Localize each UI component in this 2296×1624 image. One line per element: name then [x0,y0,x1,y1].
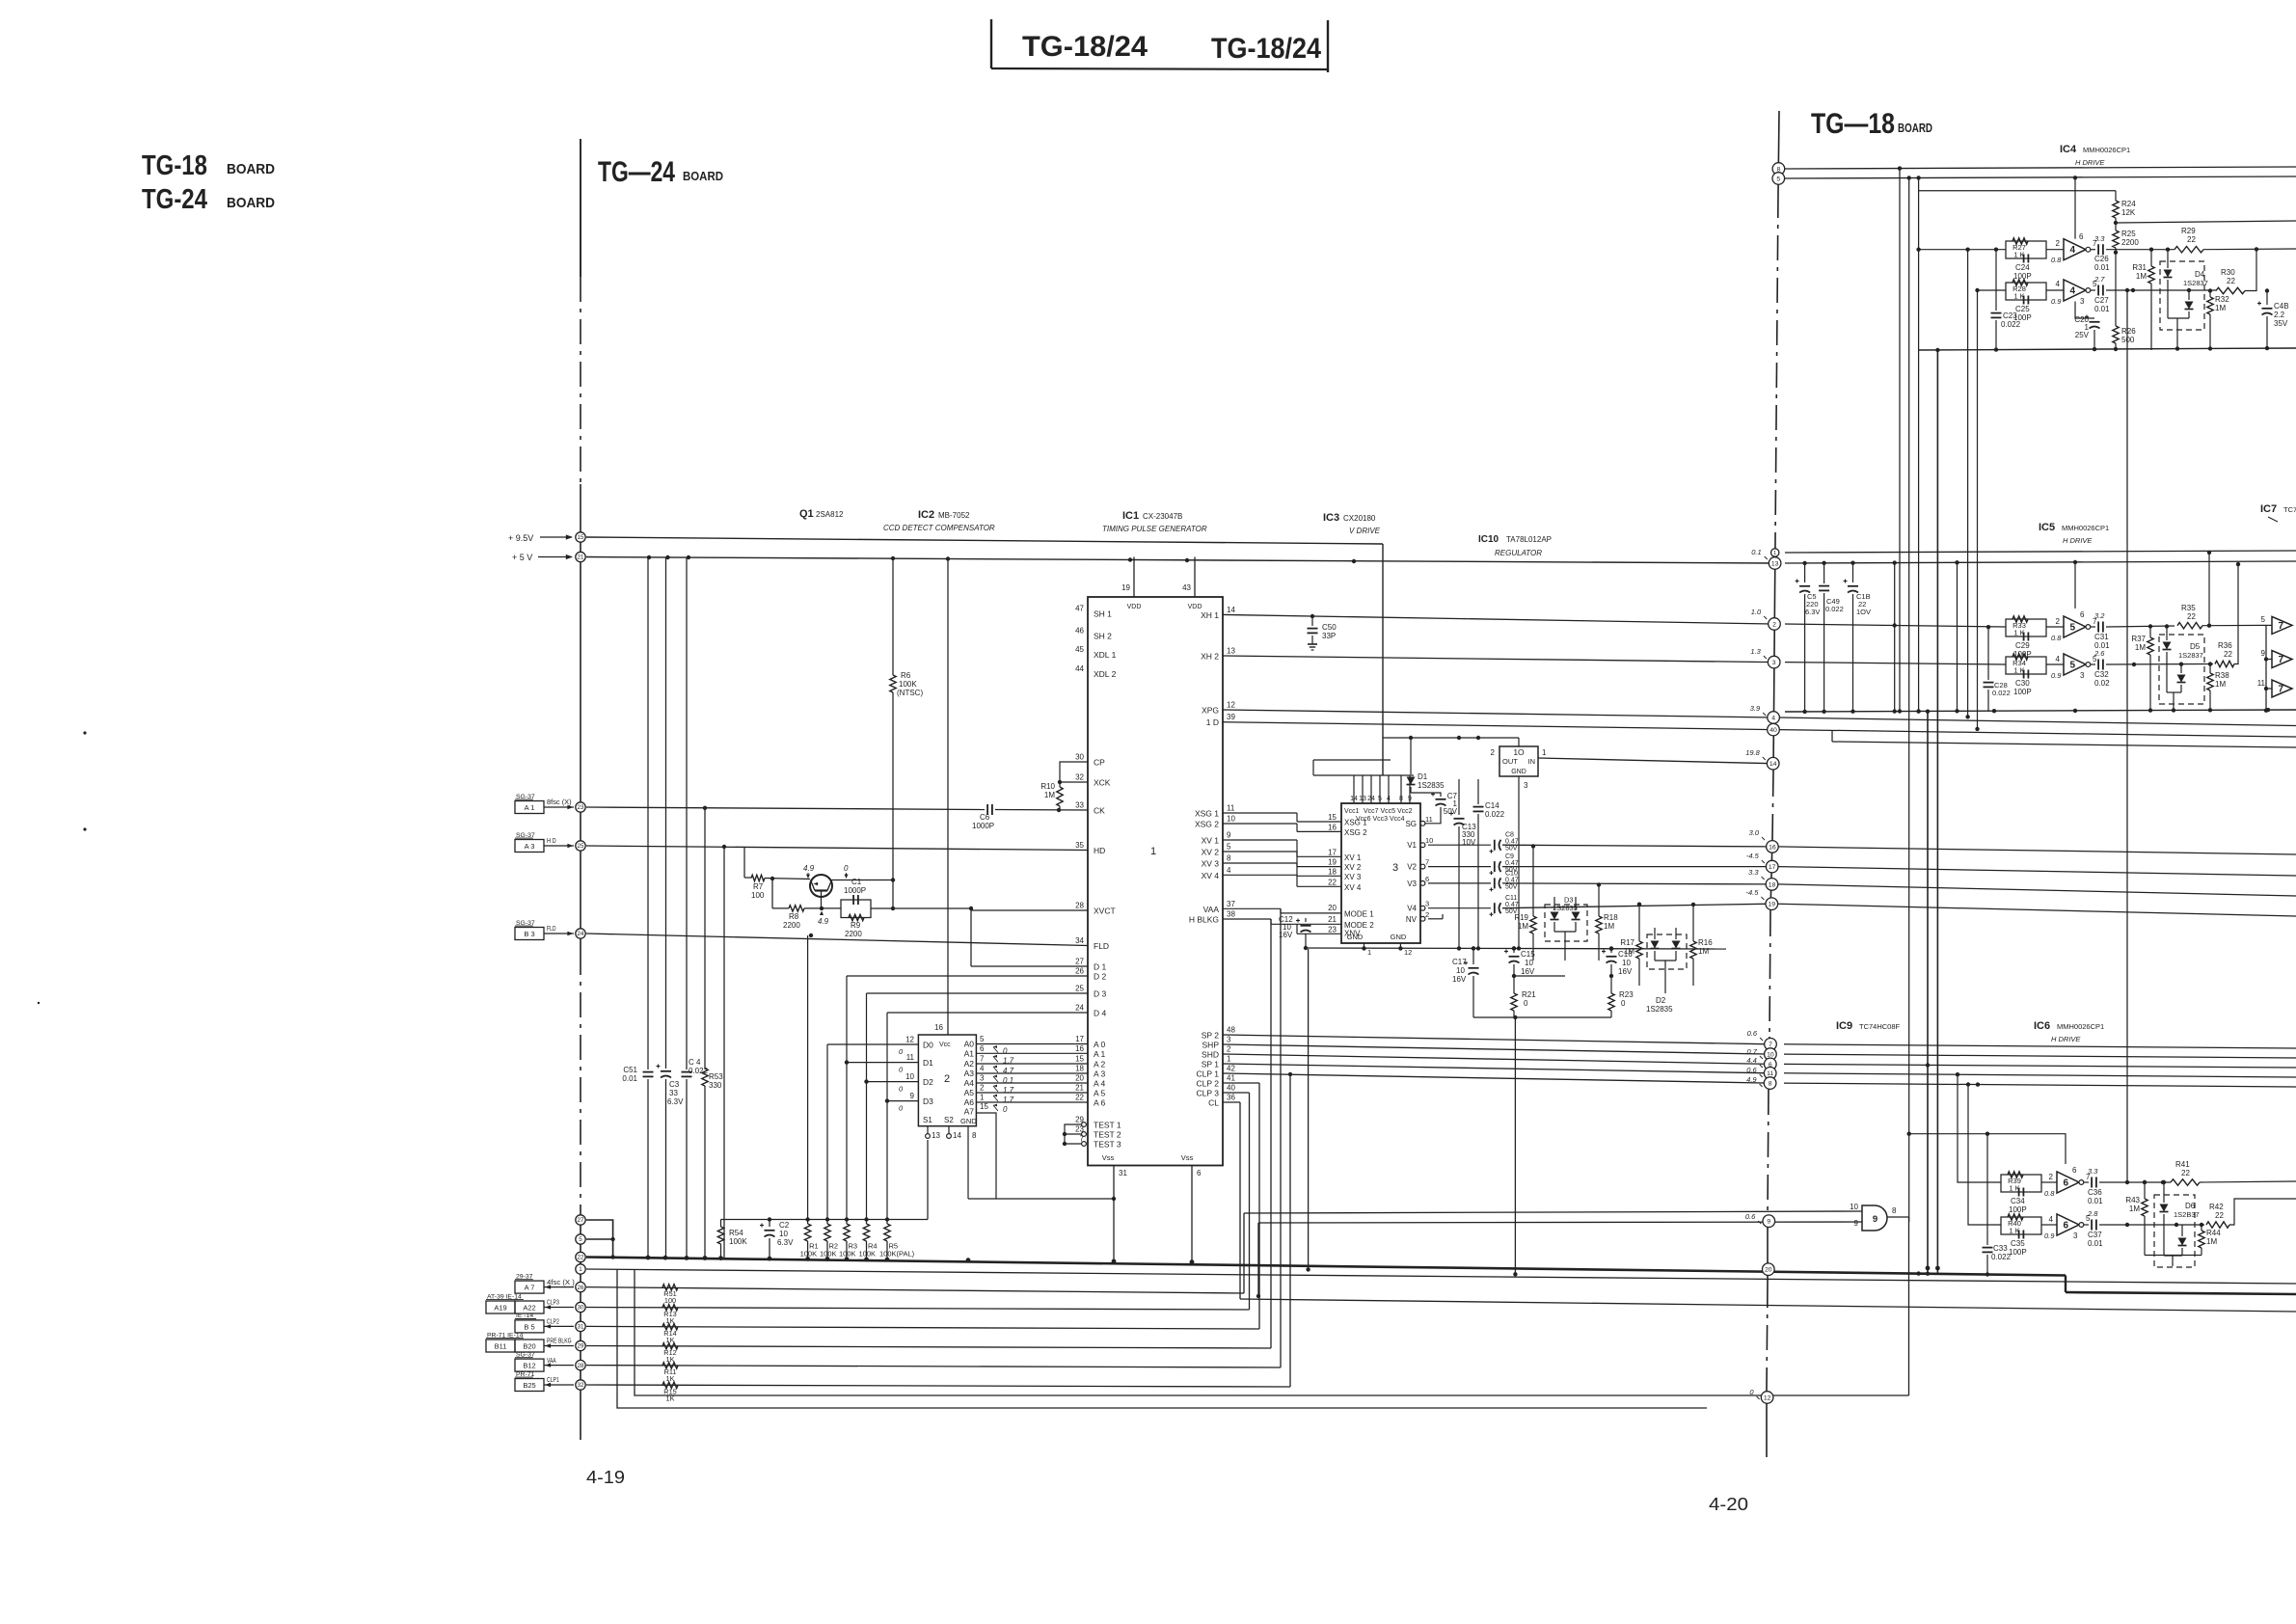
resistor R41 22 [2171,1160,2296,1185]
svg-text:Q1: Q1 [799,508,814,520]
svg-text:CCD DETECT COMPENSATOR: CCD DETECT COMPENSATOR [883,524,995,532]
svg-text:C14: C14 [1485,801,1499,810]
svg-text:C27: C27 [2094,296,2109,305]
svg-text:A1: A1 [964,1048,975,1058]
svg-text:C8: C8 [1505,832,1514,839]
svg-text:100K: 100K [729,1237,747,1246]
resistor R6 100K(NTSC) [890,557,924,909]
annotation 4.9 at Q1 emitter [818,911,829,927]
wire XV2 IC1-IC3 [1223,852,1341,867]
svg-text:C29: C29 [2015,641,2030,650]
svg-text:IC10: IC10 [1478,534,1499,545]
svg-text:B20: B20 [523,1342,535,1351]
svg-text:20: 20 [1328,904,1337,912]
svg-text:R54: R54 [729,1229,743,1237]
svg-text:4-20: 4-20 [1709,1495,1748,1514]
svg-text:A 6: A 6 [1094,1098,1106,1108]
svg-text:XSG 2: XSG 2 [1195,820,1219,829]
wire bottom link row [1473,1015,1611,1019]
resistor R28 1K / capacitor C25 100P [1975,280,2046,322]
svg-text:3: 3 [1524,781,1528,790]
svg-text:21: 21 [578,555,584,561]
svg-text:R17: R17 [1620,938,1634,947]
resistor R15 1K [662,1382,678,1402]
svg-text:0.7: 0.7 [1746,1047,1757,1056]
wire XV4 IC1-IC3 [1223,875,1341,886]
capacitor C20 1 25V [2074,302,2099,351]
wire R21 row drop to rail1 [1513,1017,1517,1277]
svg-text:C30: C30 [2015,679,2030,688]
svg-text:TG—18: TG—18 [1811,108,1895,140]
svg-text:A 7: A 7 [525,1284,535,1292]
wire FLD rail [586,934,1088,946]
svg-text:100K: 100K [800,1250,818,1259]
svg-text:2: 2 [1425,910,1429,919]
svg-text:A19: A19 [494,1304,506,1313]
svg-text:R8: R8 [789,912,799,921]
wire IC4 bottom rail [1919,346,2296,352]
wire IC2 D1 input [845,1060,919,1064]
svg-text:12: 12 [1764,1394,1771,1401]
wire CLP3 rail [586,1093,1250,1310]
svg-text:18: 18 [1328,867,1337,876]
svg-text:22: 22 [2187,612,2196,621]
svg-text:BOARD: BOARD [683,169,723,183]
resistor R5 100K(PAL) [879,1220,915,1259]
wire XH2 to node 3 [1223,656,1772,663]
IC1 Vss pins 31 and 6 [1102,1153,1202,1264]
svg-text:IC9: IC9 [1836,1020,1852,1032]
svg-text:0: 0 [844,864,849,873]
wire R24/R25 junction rail [2114,221,2296,225]
svg-text:3.3: 3.3 [1748,868,1759,877]
svg-text:D6: D6 [2185,1202,2196,1210]
svg-text:D1: D1 [1418,772,1428,781]
resistor R8 2200 [772,906,841,930]
wire VAA rail [586,908,1281,1367]
wire vert col x2009 (thick) [1936,350,1938,1274]
wire R28 vert input [1975,290,1979,731]
wire TEST pins bracket [1063,1123,1087,1147]
svg-text:25: 25 [578,843,584,850]
resistor R3 100K [839,1220,857,1259]
svg-text:8: 8 [1227,854,1231,863]
svg-text:5: 5 [2070,623,2076,634]
svg-text:A6: A6 [964,1097,975,1107]
wire SHD rail [1223,1054,1770,1064]
svg-text:SH 2: SH 2 [1094,632,1112,641]
svg-text:0.8: 0.8 [2051,256,2062,264]
svg-text:IC2: IC2 [918,509,934,521]
label IC9 TC74HC08F [1836,1020,1901,1032]
svg-text:D 4: D 4 [1094,1009,1107,1018]
resistor R54 100K [717,1220,747,1259]
svg-text:R24: R24 [2121,200,2136,208]
svg-text:9: 9 [1873,1214,1877,1225]
page number 4-19 [586,1468,625,1487]
svg-text:10: 10 [1456,966,1465,975]
svg-text:2.7: 2.7 [2093,275,2105,284]
IC1 left pin labels [1075,605,1121,1150]
connector 29-37 A7 4fsc(X) [515,1273,575,1293]
capacitor C14 0.022 [1473,779,1505,948]
resistor R44 1M [2199,1223,2221,1256]
svg-text:0.022: 0.022 [1991,1253,2012,1261]
svg-text:XV 1: XV 1 [1344,853,1362,862]
wire SP2 rail [1223,1035,1771,1044]
wire V2/V3 junction drops [0,0,1,1]
svg-text:VAA: VAA [547,1356,556,1365]
wire XPG to node 4 [1223,710,1773,717]
wire rail node7 right [1784,1044,2296,1048]
svg-text:C 4: C 4 [689,1058,701,1067]
svg-text:6: 6 [980,1044,985,1053]
node 22 (GND) [576,1252,585,1261]
label IC5 MMH0026CP1 [2039,522,2109,533]
svg-text:4.9: 4.9 [803,864,815,873]
svg-text:CLP1: CLP1 [547,1375,559,1384]
svg-text:3.3: 3.3 [2088,1167,2098,1176]
wire IC2 GND pin8 row [968,1198,996,1200]
wire Q1 feed from HD [743,848,745,879]
svg-text:D 1: D 1 [1094,962,1107,972]
resistor R36 22 [2215,562,2240,667]
resistor R31 1M [2132,250,2154,350]
svg-text:14: 14 [1227,606,1235,614]
op-amp IC7 section C [2257,679,2292,697]
diode D2 1S2835 (dual, dashed box) [1646,928,1687,1014]
svg-text:C16: C16 [1618,950,1633,959]
svg-text:GND: GND [1391,933,1407,941]
node 23 (8fsc) [576,802,585,812]
svg-text:6: 6 [2079,232,2084,241]
svg-text:14: 14 [1769,761,1777,768]
wire D2 route [847,976,1088,1220]
TG-18 board boundary line (dash-dot vertical) [1767,111,1779,1457]
svg-text:1M: 1M [1044,791,1055,799]
svg-text:A3: A3 [964,1069,975,1078]
node 26 (4fsc) [576,1282,585,1291]
svg-text:A 0: A 0 [1094,1040,1106,1049]
svg-text:0.47: 0.47 [1505,902,1519,908]
svg-text:C3: C3 [669,1080,680,1089]
node 32 (CLP1) [576,1380,585,1390]
svg-text:22: 22 [2227,277,2235,285]
svg-text:D2: D2 [923,1077,933,1087]
wire vert col x2206 [2125,288,2129,1184]
svg-text:35: 35 [1075,841,1084,850]
svg-text:4: 4 [2056,655,2061,663]
svg-text:H D: H D [547,836,556,845]
svg-text:Vss: Vss [1102,1153,1115,1162]
IC2 left pins D0-D3 [899,1036,933,1113]
svg-text:OUT: OUT [1502,757,1518,766]
wire XH1 to node 2 [1223,614,1772,624]
wire SG pin11 [1425,807,1441,824]
svg-text:1: 1 [1542,748,1547,757]
wire D3 route [867,993,1089,1220]
svg-text:C36: C36 [2088,1188,2102,1197]
svg-text:XDL 1: XDL 1 [1094,650,1117,660]
svg-text:-4.5: -4.5 [1745,888,1759,897]
svg-text:27: 27 [1075,958,1084,966]
wire R27 vert input [1965,250,1969,719]
svg-text:13: 13 [1227,647,1235,656]
wire PRE BLKG rail [586,919,1271,1348]
svg-text:NV: NV [1406,915,1418,924]
op-amp U IC3 body [1341,803,1420,943]
svg-text:R7: R7 [753,882,764,891]
IC1 VDD pin 19 [1121,557,1141,611]
svg-text:D1: D1 [923,1058,933,1068]
connector SG-37 B3 FLD [515,920,574,940]
svg-text:4: 4 [2070,286,2076,297]
svg-text:TIMING PULSE GENERATOR: TIMING PULSE GENERATOR [1102,525,1207,533]
svg-text:D5: D5 [2190,642,2201,651]
title text TG-18/24 right [1211,33,1321,65]
svg-text:A 2: A 2 [1094,1060,1106,1069]
svg-text:R43: R43 [2125,1196,2140,1204]
svg-text:1K: 1K [666,1374,675,1383]
node 1 [576,1264,585,1274]
svg-text:R25: R25 [2121,230,2136,238]
svg-text:A 3: A 3 [1094,1069,1106,1079]
svg-text:R35: R35 [2181,604,2196,612]
wire C12 top link [1306,917,1341,919]
resistor R27 1K / capacitor C24 100P [1916,238,2046,281]
svg-text:8: 8 [972,1131,977,1140]
wire rail node10 right [1784,1054,2296,1058]
connector SG-37 A3 HD [515,832,574,853]
resistor R30 22 [2216,247,2258,294]
svg-text:+ 9.5V: + 9.5V [508,533,533,543]
svg-text:24: 24 [1367,796,1375,802]
svg-text:22: 22 [2215,1211,2224,1220]
wire XSG2 IC1-IC3 [1223,823,1341,831]
resistor R1 100K [800,1220,819,1259]
svg-text:4.9: 4.9 [818,917,829,926]
svg-text:TG-18/24: TG-18/24 [1022,31,1148,63]
svg-text:14: 14 [953,1131,961,1140]
svg-text:TEST 2: TEST 2 [1094,1130,1121,1140]
diode D5 1S2837 (dual, dashed box) [2159,627,2204,713]
svg-text:100K: 100K [899,680,917,689]
wire C6 to CK pin33 [995,808,1088,812]
svg-text:0.1: 0.1 [1751,548,1761,556]
svg-text:HD: HD [1094,846,1105,855]
svg-text:500: 500 [2121,336,2135,344]
svg-text:4: 4 [1227,866,1231,875]
wire aux bus 1460 [617,1269,1707,1408]
wire gnd bus IC3 area [1306,946,1726,950]
svg-text:0.01: 0.01 [2088,1239,2103,1248]
svg-text:26: 26 [1075,967,1084,976]
resistor R38 1M [2207,662,2229,712]
svg-text:R53: R53 [709,1072,723,1081]
svg-text:H BLKG: H BLKG [1189,915,1219,925]
resistor R33 1K / capacitor C29 100P [2006,616,2046,659]
svg-text:8: 8 [1399,796,1403,802]
svg-text:R19: R19 [1514,913,1528,922]
svg-text:10: 10 [905,1072,914,1081]
resistor R4 100K [859,1220,878,1259]
op-amp IC6 section B [2041,1209,2098,1240]
svg-text:MODE 1: MODE 1 [1344,909,1374,918]
resistor R40 1K / capacitor C35 100P [2001,1214,2041,1257]
svg-text:2200: 2200 [845,930,862,938]
wire vert col x1999 (IC6 area) [1926,710,1930,1274]
svg-text:CL: CL [1208,1098,1219,1108]
resistor R16 1M [1690,903,1713,986]
svg-text:1 D: 1 D [1206,717,1219,727]
svg-text:TG-18: TG-18 [142,150,207,181]
wire FLD column [807,935,809,1220]
svg-text:SHD: SHD [1202,1050,1219,1060]
svg-text:2.2: 2.2 [2274,311,2285,319]
svg-text:XV 2: XV 2 [1202,848,1220,857]
svg-text:D2: D2 [1656,996,1666,1005]
svg-text:4.4: 4.4 [1746,1056,1756,1065]
wire rail 768 right [1832,730,2296,747]
op-amp U IC2 body [918,1035,976,1126]
label IC10 TA78L012AP [1478,534,1552,545]
svg-text:4: 4 [2070,245,2076,256]
node 15 [576,532,585,542]
svg-text:13: 13 [932,1131,940,1140]
svg-text:C2: C2 [779,1221,790,1230]
node 28 (VAA) [576,1360,585,1369]
svg-text:2SA812: 2SA812 [816,510,844,519]
wire HD column [723,847,725,1258]
svg-text:3.2: 3.2 [2094,611,2105,620]
resistor R53 330 [702,808,723,1258]
capacitor C4 0.022 [682,557,709,1259]
svg-text:XSG 1: XSG 1 [1344,819,1367,827]
svg-text:IN: IN [1528,757,1536,766]
svg-text:0.01: 0.01 [2094,305,2110,313]
svg-text:100P: 100P [2013,272,2032,281]
wire Q1 base-R8 column [771,879,773,908]
wire R40 input [1966,1082,2001,1225]
wire IC7 input bundle [2264,625,2268,713]
svg-text:3.3: 3.3 [2094,234,2105,243]
wire IC2 A7 to gnd route [976,1113,1116,1201]
resistor R10 1M [1040,782,1063,810]
svg-text:32: 32 [578,1382,584,1389]
svg-text:1S2835: 1S2835 [1646,1005,1673,1014]
svg-text:13: 13 [1359,796,1366,802]
wire rail-0.1 [1785,551,2296,553]
svg-text:25: 25 [1075,985,1084,993]
svg-text:3: 3 [2080,671,2085,680]
svg-text:100K: 100K [820,1250,837,1259]
svg-text:R37: R37 [2131,635,2146,643]
svg-text:8: 8 [1769,1081,1772,1088]
svg-text:H DRIVE: H DRIVE [2063,536,2093,545]
capacitor C7 1 50V [1411,792,1458,816]
svg-text:10: 10 [1525,959,1533,967]
svg-text:0.02: 0.02 [2094,679,2110,688]
svg-text:24: 24 [578,931,584,937]
svg-text:B11: B11 [495,1342,507,1351]
svg-text:6: 6 [1425,875,1429,883]
svg-text:3: 3 [2073,1232,2078,1240]
svg-text:B25: B25 [523,1381,535,1390]
svg-text:C37: C37 [2088,1231,2102,1239]
resistor R18 1M [1596,882,1618,961]
svg-text:12K: 12K [2121,208,2136,217]
svg-text:15: 15 [1328,813,1337,822]
label TG-24 BOARD top-left [142,184,275,215]
svg-text:C50: C50 [1322,623,1337,632]
label CCD DETECT COMPENSATOR [883,524,995,532]
label H DRIVE IC6 [2051,1035,2081,1043]
svg-text:IC3: IC3 [1323,512,1339,524]
wire +5V rail [586,555,1772,563]
IC3 Vcc pin stubs [1350,760,1414,803]
svg-text:IC4: IC4 [2060,144,2077,155]
svg-text:24: 24 [1075,1004,1084,1013]
svg-text:C15: C15 [1521,950,1535,959]
op-amp IC5 section A [2046,560,2105,642]
wire rail node18 right [1778,884,2296,896]
svg-text:XV 3: XV 3 [1344,873,1362,881]
svg-text:D0: D0 [923,1041,933,1050]
svg-text:1.0: 1.0 [1751,608,1762,616]
svg-text:1S2B37: 1S2B37 [2174,1210,2200,1219]
svg-text:2: 2 [980,1084,985,1093]
svg-text:TEST 3: TEST 3 [1094,1140,1121,1150]
svg-text:C23: C23 [2003,311,2017,320]
svg-text:BOARD: BOARD [227,161,275,177]
svg-text:XSG 2: XSG 2 [1344,828,1367,837]
svg-text:7: 7 [980,1055,985,1064]
wire rail below gnd right [0,0,1,1]
svg-text:41: 41 [1227,1074,1235,1083]
svg-text:5: 5 [579,1236,582,1243]
svg-text:R36: R36 [2218,641,2232,650]
svg-text:3.0: 3.0 [1749,828,1760,837]
svg-text:11: 11 [906,1053,915,1062]
svg-text:10: 10 [1622,959,1631,967]
svg-text:SH 1: SH 1 [1094,609,1112,619]
svg-text:REGULATOR: REGULATOR [1495,549,1542,557]
svg-text:TG—24: TG—24 [598,156,675,188]
svg-text:Vcc1: Vcc1 [1344,808,1360,815]
svg-text:MMH0026CP1: MMH0026CP1 [2083,146,2130,154]
wire feed y197.7 [1916,176,2116,711]
capacitor C15 10 16V [1504,946,1535,976]
svg-text:D 3: D 3 [1094,989,1107,999]
svg-text:R30: R30 [2221,268,2235,277]
svg-text:7: 7 [2279,685,2284,695]
svg-text:R16: R16 [1698,938,1713,947]
capacitor C11 0.47 50V [1428,895,1771,916]
svg-text:2: 2 [2056,239,2061,248]
svg-text:C4B: C4B [2274,302,2289,311]
wire XSG1 IC1-IC3 [1223,813,1341,822]
resistor R29 22 [2174,227,2296,253]
wire IC2 D3 input [885,1098,919,1102]
svg-text:18: 18 [1075,1065,1084,1073]
resistor R43 1M [2125,1180,2201,1256]
svg-text:1M: 1M [2129,1204,2140,1213]
label H DRIVE IC4 [2075,158,2105,167]
svg-text:C33: C33 [1993,1244,2008,1253]
wire SP1 rail [1223,1064,1770,1073]
svg-text:A7: A7 [964,1107,975,1117]
label IC6 MMH0026CP1 [2034,1020,2104,1032]
